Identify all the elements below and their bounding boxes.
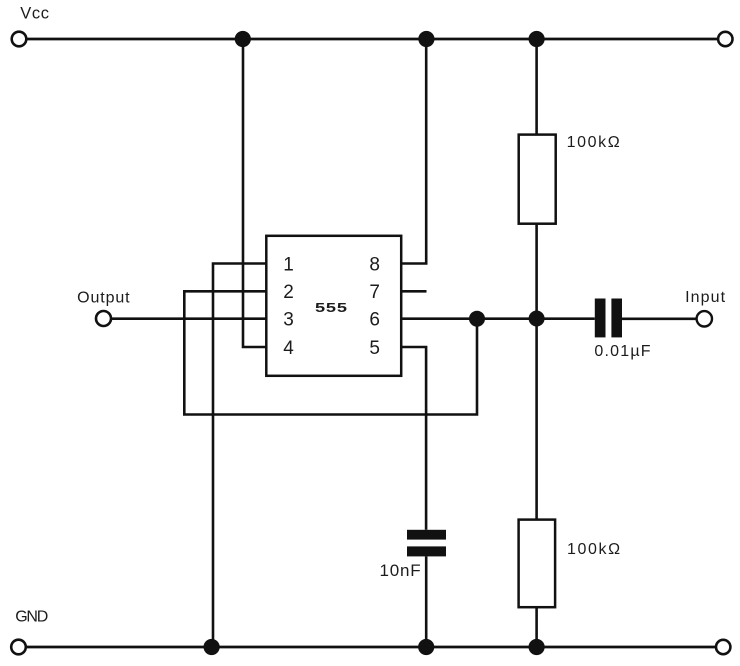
junction: bottom rail / R2 lead <box>529 639 545 655</box>
svg-text:3: 3 <box>283 310 294 331</box>
IC name 555 <box>315 301 348 315</box>
wire: C1 10nF to GND rail <box>425 556 428 647</box>
svg-text:GND: GND <box>15 609 48 626</box>
junction: pin 6 node / resistor divider <box>529 311 545 327</box>
svg-text:100kΩ: 100kΩ <box>567 541 622 558</box>
svg-text:5: 5 <box>369 338 380 359</box>
wire: pin 2 around IC to pin 6 node <box>184 291 477 414</box>
resistor R1 100k body <box>519 135 556 224</box>
wire: pin 6 to C 0.01uF left plate <box>401 317 595 320</box>
svg-text:7: 7 <box>369 282 380 303</box>
terminal: Input <box>697 311 712 326</box>
wire: pin 4 to Vcc rail <box>243 39 266 347</box>
wire: Vcc top rail <box>27 38 719 41</box>
wire: pin 7 stub <box>401 290 426 293</box>
wire: R1 to pin 6 node and down to R2 <box>535 224 538 520</box>
junction: top rail / pin4 wire <box>235 31 251 47</box>
wire: pin 5 to C 10nF <box>401 347 426 530</box>
svg-text:0.01µF: 0.01µF <box>594 343 651 360</box>
junction: top rail / pin8 wire <box>418 31 434 47</box>
wire: Vcc rail to R1 <box>535 39 538 135</box>
svg-text:Vcc: Vcc <box>20 5 49 23</box>
capacitor C2 0.01uF right plate <box>611 299 622 338</box>
terminal: Vcc right <box>718 32 732 46</box>
wire: R2 to GND rail <box>535 607 538 647</box>
junction: bottom rail / C 10nF lead <box>418 639 434 655</box>
terminal: GND left <box>11 640 26 655</box>
junction: bottom rail / pin1 wire <box>204 639 220 655</box>
wire: C2 to Input terminal <box>622 317 697 320</box>
svg-text:555: 555 <box>315 301 348 315</box>
capacitor C2 0.01uF left plate <box>595 299 606 338</box>
svg-text:100kΩ: 100kΩ <box>567 134 622 151</box>
resistor R2 100k body <box>519 520 556 608</box>
terminal: Vcc left <box>12 32 27 47</box>
junction: top rail / R1 lead <box>529 31 545 47</box>
svg-text:6: 6 <box>369 310 380 331</box>
terminal: Output <box>96 311 111 326</box>
wire: GND bottom rail <box>26 646 716 649</box>
svg-text:1: 1 <box>283 254 294 275</box>
junction: pin 6 node / pin 2 wire <box>469 311 485 327</box>
svg-text:Output: Output <box>77 289 130 306</box>
terminal: GND right <box>716 640 730 654</box>
wire: pin 1 to GND rail <box>213 264 266 648</box>
svg-text:10nF: 10nF <box>380 561 422 580</box>
IC U1 555 body <box>266 236 401 376</box>
wire: pin 3 to Output terminal <box>111 317 266 320</box>
svg-text:2: 2 <box>283 282 294 303</box>
wire: pin 8 to Vcc rail <box>401 39 426 264</box>
svg-text:8: 8 <box>369 254 380 275</box>
capacitor C1 10nF top plate <box>407 530 446 540</box>
svg-text:Input: Input <box>685 289 726 306</box>
svg-text:4: 4 <box>283 338 294 359</box>
capacitor C1 10nF bottom plate <box>407 546 446 556</box>
